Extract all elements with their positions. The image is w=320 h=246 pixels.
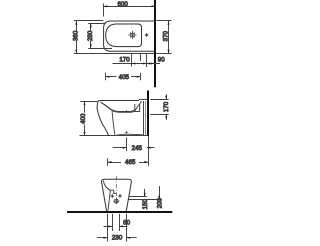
svg-text:170: 170	[163, 101, 170, 112]
svg-text:360: 360	[73, 30, 80, 41]
svg-text:405: 405	[119, 74, 130, 81]
svg-text:230: 230	[112, 235, 123, 242]
svg-text:600: 600	[118, 1, 129, 8]
svg-text:60: 60	[123, 220, 130, 227]
svg-text:465: 465	[125, 159, 136, 166]
svg-text:280: 280	[87, 30, 94, 41]
svg-text:200: 200	[156, 197, 163, 208]
svg-text:245: 245	[132, 145, 143, 152]
svg-text:170: 170	[119, 56, 130, 63]
svg-text:150: 150	[142, 198, 149, 209]
svg-text:370: 370	[163, 30, 170, 41]
svg-text:90: 90	[158, 56, 165, 63]
svg-text:400: 400	[80, 113, 87, 124]
